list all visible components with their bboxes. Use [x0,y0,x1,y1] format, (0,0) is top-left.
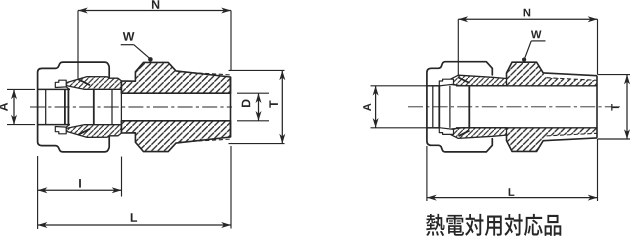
nut outline [38,62,110,152]
centerline right figure [408,106,620,108]
front/back ferrule boundary top [78,79,90,85]
tube end edge right [438,86,440,128]
thread crest dashed line bottom [178,139,231,142]
fitting body hex and thread, sectioned bottom half [121,121,230,152]
dimension A right [371,85,429,87]
body hex and thread right figure, bottom half [507,128,598,152]
dimension T right [598,74,631,76]
caption 熱電対用対応品 [426,214,561,236]
tube hole top edge [38,88,70,90]
fitting body hex and thread, sectioned top half [121,62,230,93]
thread root dashed bottom right [547,133,598,136]
internal step edge [93,89,95,124]
body end face [230,77,232,137]
ferrule boundary right top [459,78,470,84]
label W right with leader [531,30,542,38]
thread root dashed top right [547,78,598,81]
back ferrule right bottom [439,128,453,135]
bore top edge [121,92,230,94]
front/back ferrule boundary bottom [78,129,90,135]
body counterbore edge [67,89,69,124]
ferrule wedge sectioned, bottom [61,125,122,138]
internal step edge right [468,86,470,128]
thread crest line bottom right [543,138,597,141]
dimension D left [237,92,269,94]
dimension L right [426,146,428,201]
thread crest line top right [543,73,597,76]
dimension I left [37,156,39,229]
label W left with leader [123,32,135,41]
thread crest dashed line top [178,72,231,75]
ferrule wedge right top [443,75,507,86]
body hex and thread right figure, top half [507,62,598,86]
ferrule wedge right bottom [443,128,507,139]
centerline left figure [30,106,232,108]
tube end edge [64,89,66,124]
ferrule wedge sectioned, top [61,77,122,90]
nut outline right figure [427,62,492,152]
dimension N left [78,10,231,12]
dimension A left [7,88,35,90]
dimension L left [230,146,232,229]
dimension N right [458,18,597,20]
back ferrule top [55,80,66,87]
bore bottom edge [121,120,230,122]
ferrule boundary right bottom [459,131,470,137]
body relief edge [120,81,122,133]
tube hole bottom edge [38,124,70,126]
internal step edge 2 [111,89,113,124]
back ferrule bottom [55,127,66,134]
internal edge right [449,86,451,128]
body end face right [596,76,598,138]
nut bore chamfer edge right [432,86,434,128]
dimension T left [229,69,285,71]
back ferrule right top [439,79,453,86]
label N right [524,9,531,17]
through bore top edge [427,85,439,87]
nut bore chamfer edge [45,89,47,124]
through bore bottom edge [427,127,439,129]
label N left [152,0,159,9]
